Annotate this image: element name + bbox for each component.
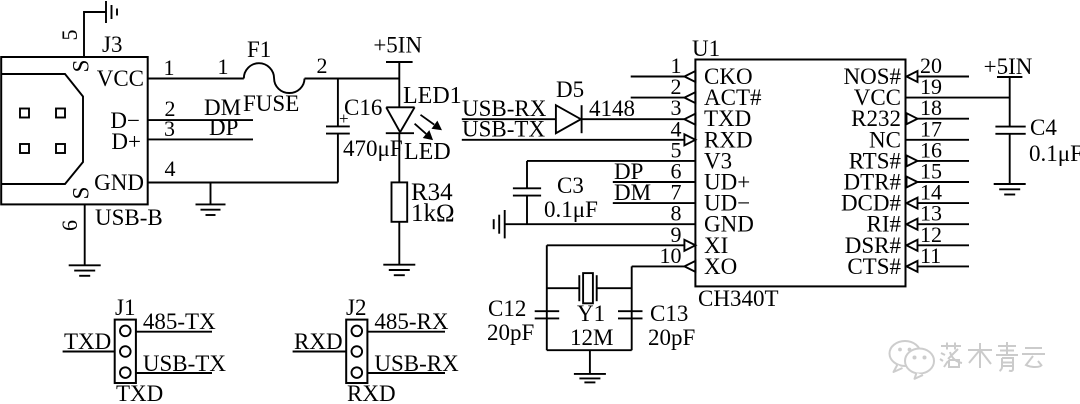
svg-text:CH340T: CH340T <box>698 286 779 311</box>
svg-text:D5: D5 <box>556 77 584 102</box>
svg-text:S: S <box>68 187 93 200</box>
USB-B inner shell outline <box>1 74 83 184</box>
ground below C4 <box>994 184 1026 195</box>
svg-text:+: + <box>339 109 349 128</box>
svg-text:VCC: VCC <box>97 66 144 91</box>
pin 17 wire NC <box>906 139 970 141</box>
wire +5IN down to C4 <box>1009 77 1011 127</box>
ground on GND wire <box>196 183 226 216</box>
svg-text:485-RX: 485-RX <box>374 309 449 334</box>
svg-text:4148: 4148 <box>589 96 635 121</box>
connector J2 box <box>346 320 367 383</box>
svg-text:+5IN: +5IN <box>373 33 422 58</box>
wire C3 down to pin8 wire <box>526 196 528 225</box>
J2 pin circle 3 <box>352 367 363 378</box>
pin 12 arrow <box>907 240 918 251</box>
ground below R34 <box>383 265 415 276</box>
pin 1 wire CKO <box>631 76 685 78</box>
svg-text:470μF: 470μF <box>343 136 403 161</box>
svg-text:11: 11 <box>920 243 941 268</box>
wire pin10 down to crystal <box>631 266 633 350</box>
watermark text yun (approximated) <box>1022 348 1045 367</box>
svg-text:1: 1 <box>164 55 175 80</box>
wire fuse to +5IN column <box>305 78 400 80</box>
svg-text:J3: J3 <box>102 32 122 57</box>
wire TXD to J1 <box>63 351 115 353</box>
pin 11 wire CTS# <box>918 265 970 267</box>
J1 pin circle 3 <box>120 367 131 378</box>
USB-B contact square 3 <box>20 144 29 153</box>
svg-text:1: 1 <box>218 54 229 79</box>
svg-text:20pF: 20pF <box>648 325 695 350</box>
svg-text:D+: D+ <box>111 129 141 154</box>
wire VCC from J3 to fuse <box>148 78 244 80</box>
USB-B contact square 4 <box>56 144 65 153</box>
pin 9 wire XI <box>547 244 685 246</box>
svg-text:TXD: TXD <box>116 381 163 404</box>
svg-text:RXD: RXD <box>347 381 396 404</box>
svg-text:0.1μF: 0.1μF <box>1029 141 1080 166</box>
wire J2 to 485-RX <box>367 331 445 333</box>
wire J1 to 485-TX <box>136 331 212 333</box>
ground below crystal <box>574 374 606 383</box>
ground (sideways) at pin 8 <box>494 210 505 238</box>
pin 4 arrow <box>684 134 695 145</box>
pin 13 wire RI# <box>918 223 970 225</box>
wire USB-TX to IC pin 4 <box>462 139 685 141</box>
capacitor C12 <box>535 311 560 318</box>
wire C4 to ground <box>1009 134 1011 184</box>
pin 6 wire UD+ <box>613 181 696 183</box>
ground (sideways) at J3 pin 5 <box>106 1 117 23</box>
pin 15 arrow <box>907 177 918 188</box>
svg-text:FUSE: FUSE <box>243 91 299 116</box>
pin 2 arrow <box>684 92 695 103</box>
capacitor C4 <box>995 127 1025 134</box>
svg-text:6: 6 <box>57 220 82 231</box>
watermark text luo (approximated) <box>940 343 962 368</box>
diode D5 <box>556 105 582 133</box>
svg-text:LED1: LED1 <box>403 83 462 109</box>
pin 18 arrow <box>907 113 918 124</box>
watermark wechat logo <box>890 341 935 379</box>
svg-text:TXD: TXD <box>64 329 111 354</box>
svg-text:S: S <box>68 60 93 73</box>
wire pin5 V3 down to C3 <box>526 161 528 188</box>
svg-text:J2: J2 <box>346 295 366 320</box>
wire USB-RX to diode <box>462 118 556 120</box>
pin 7 wire UD- <box>613 202 696 204</box>
pin 12 wire DSR# <box>918 244 970 246</box>
svg-text:J1: J1 <box>115 295 135 320</box>
pin 16 wire RTS# <box>918 160 970 162</box>
resistor R34 <box>392 182 408 221</box>
svg-text:4: 4 <box>165 156 176 181</box>
J2 pin circle 2 <box>352 346 363 357</box>
svg-text:DP: DP <box>209 115 238 140</box>
IC U1 box <box>695 60 905 287</box>
wire LED to R34 <box>398 133 400 182</box>
wire pin9 down to crystal <box>546 245 548 350</box>
crystal top wire left <box>547 287 580 289</box>
wire R34 to ground <box>398 222 400 265</box>
J1 pin circle 1 <box>120 326 131 337</box>
connector J3 USB-B outer box <box>1 57 148 204</box>
wire J1 to USB-TX <box>136 372 212 374</box>
pin 6 wire <box>84 204 86 265</box>
svg-text:C16: C16 <box>344 95 382 120</box>
connector J1 box <box>115 320 136 383</box>
svg-text:3: 3 <box>164 116 175 141</box>
pin 14 wire DCD# <box>918 202 970 204</box>
capacitor C16 <box>326 79 350 183</box>
pin 15 wire DTR# <box>918 181 970 183</box>
pin 20 arrow <box>907 71 918 82</box>
crystal top wire right <box>597 287 632 289</box>
pin 3 arrow <box>684 114 695 125</box>
pin 16 arrow <box>907 155 918 166</box>
wire D- <box>148 119 253 121</box>
wire RXD to J2 <box>293 351 347 353</box>
pin 19 wire VCC <box>906 97 1010 99</box>
svg-text:485-TX: 485-TX <box>143 309 216 334</box>
wire +5IN to LED <box>398 62 400 107</box>
USB-B contact square 1 <box>20 109 29 118</box>
fuse F1 <box>244 63 305 93</box>
pin 5 wire <box>84 12 106 57</box>
pin 18 wire R232 <box>918 118 970 120</box>
J2 pin circle 1 <box>352 326 363 337</box>
svg-text:F1: F1 <box>247 37 271 62</box>
capacitor C13 <box>618 311 643 318</box>
wire J2 to USB-RX <box>367 372 445 374</box>
svg-text:U1: U1 <box>692 36 720 61</box>
USB-B contact square 2 <box>56 109 65 118</box>
LED1 emission arrows <box>415 115 442 140</box>
pin 9 arrow <box>684 240 695 251</box>
svg-text:RXD: RXD <box>294 329 343 354</box>
pin 2 wire ACT# <box>631 97 685 99</box>
svg-text:CTS#: CTS# <box>847 254 901 279</box>
pin 10 arrow <box>684 261 695 272</box>
watermark text qing (approximated) <box>996 342 1018 371</box>
wire diode to IC pin 3 <box>582 118 685 120</box>
watermark text mu (approximated) <box>968 343 992 368</box>
svg-text:Y1: Y1 <box>577 301 605 326</box>
LED1 diode triangle <box>386 107 415 133</box>
svg-text:20pF: 20pF <box>487 320 534 345</box>
wire GND from J3 to C16 <box>148 182 338 184</box>
svg-text:+5IN: +5IN <box>984 54 1033 79</box>
pin 14 arrow <box>907 198 918 209</box>
svg-text:USB-TX: USB-TX <box>462 117 545 142</box>
svg-text:C3: C3 <box>557 173 584 198</box>
pin 8 wire GND <box>505 223 696 225</box>
pin 5 wire V3 <box>527 160 695 162</box>
svg-text:5: 5 <box>57 30 82 41</box>
svg-text:12M: 12M <box>570 325 613 350</box>
svg-text:1kΩ: 1kΩ <box>411 200 455 227</box>
svg-text:2: 2 <box>317 53 328 78</box>
svg-text:C13: C13 <box>650 301 688 326</box>
svg-text:LED: LED <box>404 139 451 165</box>
svg-text:DM: DM <box>614 180 651 205</box>
pin 10 wire XO <box>632 265 685 267</box>
pin 13 arrow <box>907 219 918 230</box>
power bar right <box>997 76 1022 78</box>
svg-text:GND: GND <box>94 170 144 195</box>
power bar <box>386 61 413 63</box>
ground at J3 pin 6 <box>69 265 101 276</box>
svg-text:USB-B: USB-B <box>95 205 163 230</box>
svg-text:C4: C4 <box>1030 115 1057 140</box>
pin 1 arrow <box>684 71 695 82</box>
pin 20 wire NOS# <box>918 76 970 78</box>
pin 11 arrow <box>907 261 918 272</box>
svg-text:10: 10 <box>660 243 682 268</box>
J1 pin circle 2 <box>120 346 131 357</box>
svg-text:XO: XO <box>704 254 737 279</box>
crystal Y1 <box>579 273 596 303</box>
wire D+ <box>148 138 253 140</box>
svg-text:C12: C12 <box>488 296 526 321</box>
crystal bottom wire <box>547 349 632 351</box>
capacitor C3 <box>513 188 541 195</box>
svg-text:0.1μF: 0.1μF <box>544 197 598 222</box>
wire to crystal ground <box>589 350 591 374</box>
